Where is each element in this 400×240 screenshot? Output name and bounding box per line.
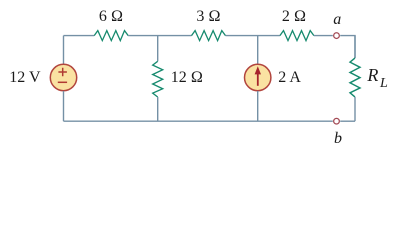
wire: bottom rail (terminal b back to left corner) bbox=[64, 120, 333, 122]
plus sign of source bbox=[58, 68, 67, 76]
svg-text:a: a bbox=[333, 11, 341, 28]
wire: right rail top stub above RL bbox=[354, 36, 356, 58]
wire: left rail top (corner down to source) bbox=[63, 36, 65, 64]
resistor 12ohm (vertical) bbox=[153, 61, 163, 97]
wire: right rail bottom stub below RL bbox=[354, 97, 356, 121]
wire: top rail left segment (left corner to 6ohm) bbox=[64, 35, 95, 37]
minus sign of source bbox=[58, 81, 67, 83]
resistor 2ohm bbox=[280, 31, 314, 41]
svg-text:12 V: 12 V bbox=[9, 69, 41, 86]
terminal b (open circle) bbox=[334, 118, 340, 124]
wire: current-source rail top stub bbox=[257, 36, 259, 64]
svg-text:3 Ω: 3 Ω bbox=[196, 8, 220, 25]
resistor 3ohm bbox=[192, 31, 226, 41]
terminal a (open circle) bbox=[334, 33, 340, 39]
wire: middle rail bottom stub bbox=[157, 97, 159, 121]
wire: terminal a to top-right corner and down bbox=[340, 36, 355, 58]
svg-text:2 A: 2 A bbox=[278, 69, 301, 86]
voltage source 12V circle bbox=[50, 64, 76, 90]
wire: top rail between 3ohm and 2ohm bbox=[226, 35, 280, 37]
wire: top rail from 2ohm to terminal a bbox=[314, 35, 333, 37]
svg-text:b: b bbox=[334, 130, 342, 147]
svg-text:12 Ω: 12 Ω bbox=[171, 69, 203, 86]
svg-text:6 Ω: 6 Ω bbox=[99, 8, 123, 25]
resistor RL (vertical) bbox=[350, 58, 360, 97]
current source 2A circle bbox=[245, 64, 271, 90]
wire: top rail between 6ohm and 3ohm bbox=[128, 35, 191, 37]
wire: current-source rail bottom stub bbox=[257, 91, 259, 121]
wire: middle rail top stub (node to 12ohm) bbox=[157, 36, 159, 62]
svg-text:RL: RL bbox=[366, 65, 388, 91]
resistor R 6ohm bbox=[94, 31, 128, 41]
svg-text:2 Ω: 2 Ω bbox=[282, 8, 306, 25]
wire: left rail bottom (source to bottom corner) bbox=[63, 91, 65, 121]
wire: bottom-right corner to terminal b bbox=[340, 120, 355, 122]
arrow of current source (up) bbox=[257, 73, 259, 86]
